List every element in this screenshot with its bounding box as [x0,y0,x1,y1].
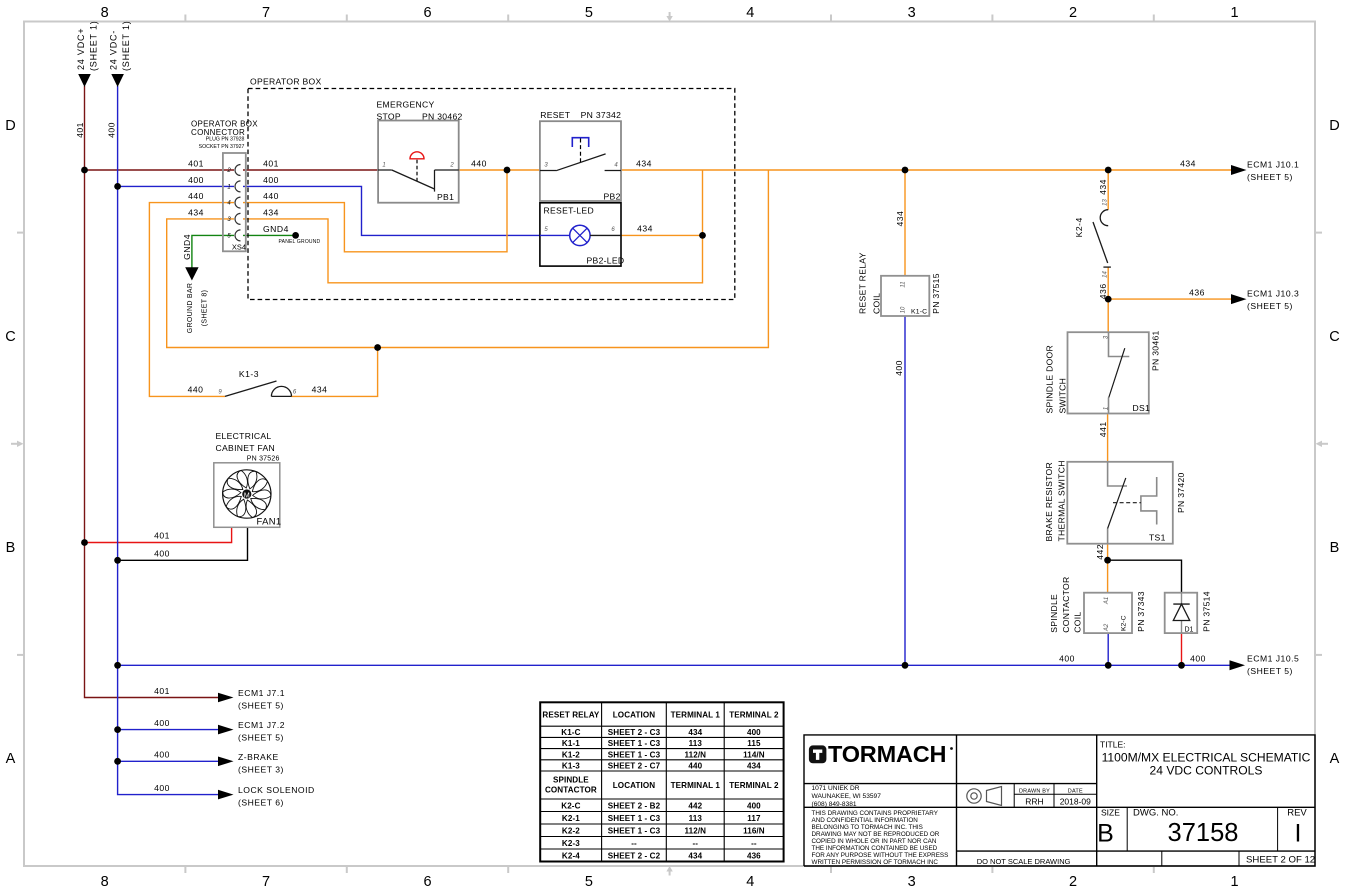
svg-text:400: 400 [747,802,761,811]
svg-text:400: 400 [1190,654,1206,664]
svg-text:K1-C: K1-C [911,309,927,316]
svg-text:400: 400 [107,122,117,138]
svg-text:11: 11 [901,281,907,287]
svg-text:I: I [1295,820,1302,848]
svg-text:4: 4 [746,5,754,21]
svg-text:XS4: XS4 [232,243,246,252]
svg-text:STOP: STOP [377,111,401,121]
svg-text:CONTACTOR: CONTACTOR [1061,576,1071,632]
svg-text:400: 400 [894,360,904,376]
svg-text:PLUG PN 37928: PLUG PN 37928 [206,136,245,142]
svg-text:FAN1: FAN1 [257,516,282,527]
svg-text:1: 1 [1103,407,1109,410]
svg-text:PB2-LED: PB2-LED [587,256,625,266]
svg-text:SPINDLE DOOR: SPINDLE DOOR [1045,345,1055,414]
svg-text:434: 434 [263,207,279,217]
svg-text:(SHEET 8): (SHEET 8) [202,290,209,326]
svg-text:440: 440 [471,158,487,168]
svg-text:ECM1 J10.1: ECM1 J10.1 [1247,159,1299,169]
svg-text:SHEET 2 - C7: SHEET 2 - C7 [608,762,661,771]
svg-text:(SHEET 5): (SHEET 5) [1247,301,1293,311]
svg-text:THIS DRAWING CONTAINS PROPRIET: THIS DRAWING CONTAINS PROPRIETARY [812,810,939,817]
svg-text:LOCK SOLENOID: LOCK SOLENOID [238,785,315,795]
svg-text:8: 8 [101,5,109,21]
svg-text:SWITCH: SWITCH [1058,378,1068,414]
svg-text:CABINET FAN: CABINET FAN [216,443,276,453]
svg-text:A: A [6,751,16,767]
svg-text:7: 7 [262,5,270,21]
svg-text:GROUND BAR: GROUND BAR [187,283,194,333]
svg-text:434: 434 [747,762,761,771]
svg-text:434: 434 [688,728,702,737]
svg-text:PANEL GROUND: PANEL GROUND [279,239,321,245]
svg-text:SPINDLE: SPINDLE [1049,594,1059,633]
svg-text:B: B [6,540,16,556]
svg-text:10: 10 [901,306,907,313]
svg-text:SIZE: SIZE [1101,808,1120,818]
svg-text:GND4: GND4 [263,224,289,234]
svg-text:115: 115 [747,739,761,748]
svg-text:K2-1: K2-1 [562,814,580,823]
svg-text:THERMAL SWITCH: THERMAL SWITCH [1057,460,1067,541]
svg-text:442: 442 [688,802,702,811]
svg-text:400: 400 [747,728,761,737]
svg-text:3: 3 [908,874,916,890]
svg-text:401: 401 [75,122,85,138]
svg-text:ECM1 J7.2: ECM1 J7.2 [238,720,285,730]
svg-text:K2-C: K2-C [561,802,580,811]
svg-text:2: 2 [226,168,231,174]
svg-text:434: 434 [1098,179,1108,195]
svg-text:(SHEET 5): (SHEET 5) [238,701,284,711]
svg-text:(608) 849-8381: (608) 849-8381 [812,801,857,808]
svg-text:GND4: GND4 [182,234,192,260]
svg-text:DO NOT SCALE DRAWING: DO NOT SCALE DRAWING [977,857,1071,866]
svg-text:(SHEET 1): (SHEET 1) [121,20,131,71]
svg-text:400: 400 [1059,654,1075,664]
svg-text:SHEET 2 OF 12: SHEET 2 OF 12 [1246,855,1315,866]
svg-text:117: 117 [747,814,761,823]
svg-text:LOCATION: LOCATION [613,711,656,720]
svg-text:440: 440 [688,762,702,771]
svg-text:440: 440 [188,385,204,395]
svg-text:442: 442 [1095,544,1105,560]
svg-text:440: 440 [188,191,204,201]
svg-text:D: D [1329,118,1339,134]
svg-text:6: 6 [423,874,431,890]
svg-text:434: 434 [1180,158,1196,168]
svg-text:400: 400 [263,175,279,185]
svg-text:5: 5 [585,874,593,890]
svg-text:K2-4: K2-4 [562,852,580,861]
svg-text:PN 37343: PN 37343 [1136,591,1146,632]
svg-text:EMERGENCY: EMERGENCY [377,100,435,110]
svg-text:AND CONFIDENTIAL INFORMATION: AND CONFIDENTIAL INFORMATION [812,817,919,824]
svg-text:PN 37420: PN 37420 [1176,472,1186,513]
svg-text:3: 3 [908,5,916,21]
svg-text:SHEET 1 - C3: SHEET 1 - C3 [608,827,661,836]
svg-text:8: 8 [101,874,109,890]
svg-text:401: 401 [154,531,170,541]
svg-text:TITLE:: TITLE: [1100,740,1126,750]
svg-text:440: 440 [263,191,279,201]
svg-text:COIL: COIL [1073,612,1083,633]
svg-text:1071 UNIEK DR: 1071 UNIEK DR [812,785,860,792]
svg-text:DRAWN BY: DRAWN BY [1019,789,1050,795]
svg-text:SOCKET PN 37927: SOCKET PN 37927 [199,144,245,150]
svg-text:K1-1: K1-1 [562,739,580,748]
svg-text:(SHEET 5): (SHEET 5) [1247,666,1293,676]
svg-text:SHEET 2 - C2: SHEET 2 - C2 [608,852,661,861]
svg-text:REV: REV [1287,808,1307,819]
svg-text:PN 37514: PN 37514 [1202,591,1212,632]
svg-text:401: 401 [263,159,279,169]
svg-text:(SHEET 1): (SHEET 1) [89,20,99,71]
svg-text:ECM1 J10.5: ECM1 J10.5 [1247,654,1299,664]
svg-text:401: 401 [188,159,204,169]
svg-text:B: B [1330,540,1340,556]
svg-text:7: 7 [262,874,270,890]
svg-text:1100M/MX ELECTRICAL SCHEMATIC: 1100M/MX ELECTRICAL SCHEMATIC [1102,751,1311,765]
svg-text:400: 400 [154,549,170,559]
svg-text:1: 1 [1230,874,1238,890]
svg-text:SHEET 1 - C3: SHEET 1 - C3 [608,739,661,748]
svg-text:(SHEET 3): (SHEET 3) [238,764,284,774]
svg-text:434: 434 [636,158,652,168]
svg-text:ELECTRICAL: ELECTRICAL [216,431,272,441]
svg-text:116/N: 116/N [743,827,765,836]
svg-text:5: 5 [585,5,593,21]
svg-text:ECM1 J7.1: ECM1 J7.1 [238,688,285,698]
svg-text:PN 37342: PN 37342 [581,110,622,120]
svg-text:RRH: RRH [1025,797,1043,807]
svg-text:COIL: COIL [872,293,882,314]
svg-text:K2-4: K2-4 [1074,217,1084,237]
svg-text:400: 400 [154,750,170,760]
svg-text:--: -- [631,839,637,848]
svg-text:436: 436 [1098,283,1108,299]
svg-text:436: 436 [747,852,761,861]
svg-text:434: 434 [895,211,905,227]
svg-text:A2: A2 [1104,623,1110,632]
svg-text:112/N: 112/N [684,827,706,836]
svg-text:434: 434 [312,385,328,395]
svg-text:WRITTEN PERMISSION OF TORMACH: WRITTEN PERMISSION OF TORMACH INC [812,859,939,866]
svg-text:441: 441 [1098,421,1108,437]
svg-text:TS1: TS1 [1149,533,1166,543]
svg-text:DRAWING MAY NOT BE REPRODUCED: DRAWING MAY NOT BE REPRODUCED OR [812,831,940,838]
svg-text:THE INFORMATION CONTAINED BE U: THE INFORMATION CONTAINED BE USED [812,845,938,852]
svg-text:4: 4 [746,874,754,890]
svg-text:C: C [1329,329,1339,345]
svg-text:112/N: 112/N [684,750,706,759]
svg-text:2018-09: 2018-09 [1060,797,1091,807]
svg-text:Z-BRAKE: Z-BRAKE [238,752,279,762]
svg-text:COPIED IN WHOLE OR IN PART NOR: COPIED IN WHOLE OR IN PART NOR CAN [812,838,937,845]
svg-text:K1-3: K1-3 [562,762,580,771]
svg-text:OPERATOR BOX: OPERATOR BOX [250,77,322,87]
svg-text:TERMINAL 1: TERMINAL 1 [671,781,721,790]
svg-text:TERMINAL 1: TERMINAL 1 [671,711,721,720]
svg-text:PN 30462: PN 30462 [422,111,463,121]
svg-text:113: 113 [689,739,703,748]
svg-text:400: 400 [188,175,204,185]
svg-text:FOR ANY PURPOSE WITHOUT THE EX: FOR ANY PURPOSE WITHOUT THE EXPRESS [812,852,949,859]
svg-text:D1: D1 [1185,627,1194,634]
svg-text:PB2: PB2 [604,191,621,201]
svg-text:PN 37526: PN 37526 [247,456,280,463]
svg-text:14: 14 [1102,271,1108,278]
svg-text:13: 13 [1102,199,1108,206]
svg-text:PN 37515: PN 37515 [931,273,941,314]
svg-text:1: 1 [1230,5,1238,21]
svg-text:TERMINAL 2: TERMINAL 2 [729,781,779,790]
svg-text:K2-C: K2-C [1120,615,1127,631]
svg-text:1: 1 [382,162,385,168]
svg-text:(SHEET 6): (SHEET 6) [238,798,284,808]
svg-text:SPINDLE: SPINDLE [553,776,589,785]
svg-text:SHEET 2 - C3: SHEET 2 - C3 [608,728,661,737]
svg-text:K1-3: K1-3 [239,369,259,379]
svg-text:401: 401 [154,686,170,696]
svg-text:2: 2 [449,162,454,168]
svg-text:SHEET 2 - B2: SHEET 2 - B2 [608,802,661,811]
svg-text:2: 2 [1069,874,1077,890]
svg-text:434: 434 [188,207,204,217]
svg-text:--: -- [751,839,757,848]
svg-text:--: -- [693,839,699,848]
svg-text:RESET RELAY: RESET RELAY [542,711,600,720]
svg-text:37158: 37158 [1168,819,1239,847]
svg-text:6: 6 [423,5,431,21]
svg-text:2: 2 [1069,5,1077,21]
svg-text:24 VDC CONTROLS: 24 VDC CONTROLS [1150,764,1263,778]
svg-text:DS1: DS1 [1133,403,1151,413]
svg-text:C: C [5,329,15,345]
svg-text:K2-3: K2-3 [562,839,580,848]
svg-text:B: B [1097,820,1114,848]
svg-text:K1-2: K1-2 [562,750,580,759]
svg-text:113: 113 [689,814,703,823]
svg-text:K2-2: K2-2 [562,827,580,836]
svg-text:WAUNAKEE, WI 53597: WAUNAKEE, WI 53597 [812,793,882,800]
svg-text:A1: A1 [1104,597,1110,605]
svg-text:PN 30461: PN 30461 [1151,330,1161,371]
svg-text:114/N: 114/N [743,750,765,759]
svg-text:436: 436 [1189,288,1205,298]
svg-text:LOCATION: LOCATION [613,781,656,790]
svg-text:RESET: RESET [540,110,571,120]
svg-text:400: 400 [154,718,170,728]
svg-text:SHEET 1 - C3: SHEET 1 - C3 [608,814,661,823]
svg-text:SHEET 1 - C3: SHEET 1 - C3 [608,750,661,759]
svg-text:A: A [1330,751,1340,767]
svg-text:24 VDC+: 24 VDC+ [76,28,86,70]
svg-text:TERMINAL 2: TERMINAL 2 [729,711,779,720]
svg-text:24 VDC-: 24 VDC- [109,30,119,70]
svg-text:RESET RELAY: RESET RELAY [857,252,867,314]
svg-text:(SHEET 5): (SHEET 5) [1247,172,1293,182]
svg-text:K1-C: K1-C [561,728,580,737]
svg-text:DWG. NO.: DWG. NO. [1133,808,1178,819]
svg-text:M: M [244,493,250,500]
svg-text:RESET-LED: RESET-LED [544,206,594,216]
svg-text:ECM1 J10.3: ECM1 J10.3 [1247,288,1299,298]
svg-text:1: 1 [227,184,230,190]
svg-text:400: 400 [154,783,170,793]
svg-text:BRAKE RESISTOR: BRAKE RESISTOR [1044,462,1054,542]
svg-text:434: 434 [637,223,653,233]
svg-text:434: 434 [688,852,702,861]
svg-text:DATE: DATE [1068,789,1083,795]
svg-text:(SHEET 5): (SHEET 5) [238,733,284,743]
svg-text:PB1: PB1 [437,192,454,202]
svg-text:CONTACTOR: CONTACTOR [545,786,597,795]
svg-text:BELONGING TO TORMACH INC. THIS: BELONGING TO TORMACH INC. THIS [812,824,923,831]
svg-text:TORMACH: TORMACH [828,741,946,767]
svg-text:D: D [5,118,15,134]
